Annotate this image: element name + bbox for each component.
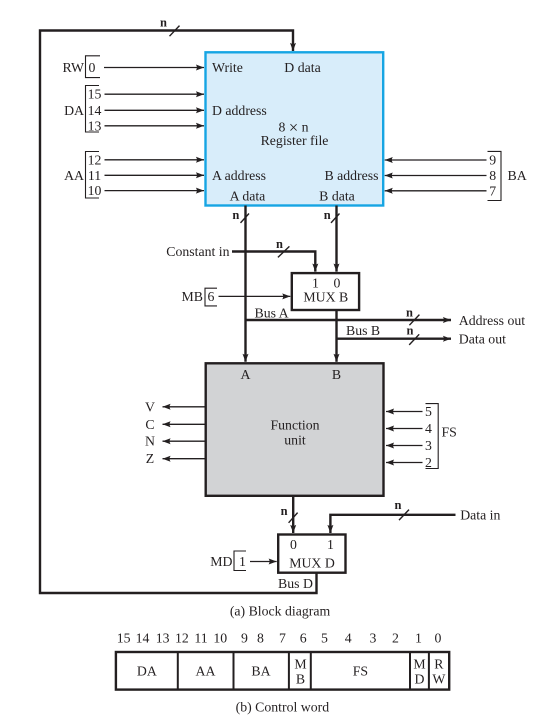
- svg-text:0: 0: [290, 537, 297, 552]
- mux MUX B: [292, 273, 359, 310]
- svg-text:n: n: [232, 208, 239, 222]
- svg-text:6: 6: [208, 289, 215, 304]
- svg-text:9: 9: [241, 631, 248, 646]
- wire BA bit 9: [385, 159, 487, 161]
- svg-text:D address: D address: [212, 103, 267, 118]
- svg-text:14: 14: [88, 103, 102, 118]
- svg-text:BA: BA: [508, 168, 527, 183]
- svg-text:n: n: [276, 237, 283, 251]
- svg-text:A: A: [241, 367, 251, 382]
- svg-text:DA: DA: [137, 663, 157, 678]
- svg-text:1: 1: [327, 537, 334, 552]
- svg-text:(a) Block diagram: (a) Block diagram: [230, 604, 331, 620]
- svg-text:n: n: [406, 305, 413, 319]
- svg-text:9: 9: [489, 153, 496, 168]
- wire AA bit 11: [105, 174, 205, 176]
- svg-text:13: 13: [156, 631, 170, 646]
- field RW: [432, 657, 445, 687]
- BA bits 9-7 control field: [488, 151, 527, 200]
- svg-text:DA: DA: [64, 103, 84, 118]
- svg-text:11: 11: [194, 631, 207, 646]
- svg-text:11: 11: [88, 168, 101, 183]
- wire Bus A to Address out: [246, 305, 526, 328]
- wire status output V: [145, 399, 206, 414]
- svg-text:n: n: [407, 324, 414, 338]
- svg-text:B: B: [332, 367, 341, 382]
- wire MB to MUX B select: [219, 295, 291, 297]
- svg-text:14: 14: [136, 631, 150, 646]
- svg-text:0: 0: [89, 60, 96, 75]
- register file U1 (8 x n): [206, 52, 384, 205]
- svg-text:Bus A: Bus A: [255, 306, 289, 321]
- wire RW to Write: [104, 67, 204, 69]
- svg-text:3: 3: [369, 631, 376, 646]
- svg-text:7: 7: [279, 631, 286, 646]
- svg-text:Write: Write: [212, 60, 243, 75]
- wire MD to MUX D select: [250, 561, 277, 563]
- svg-text:n: n: [160, 16, 167, 30]
- svg-text:Bus B: Bus B: [346, 323, 380, 338]
- svg-text:n: n: [395, 498, 402, 512]
- svg-text:5: 5: [425, 404, 432, 419]
- svg-text:n: n: [281, 504, 288, 518]
- svg-text:W: W: [432, 672, 445, 687]
- svg-text:1: 1: [415, 631, 422, 646]
- svg-text:D data: D data: [284, 60, 320, 75]
- svg-text:12: 12: [88, 152, 102, 167]
- svg-text:C: C: [145, 417, 154, 432]
- svg-text:15: 15: [88, 87, 102, 102]
- wire DA bit 13: [105, 125, 205, 127]
- wire MUX B output to function unit B input: [335, 310, 337, 362]
- svg-text:5: 5: [321, 631, 328, 646]
- svg-text:V: V: [145, 399, 155, 414]
- AA bits 12-10 control field: [64, 152, 101, 199]
- svg-text:0: 0: [334, 275, 341, 290]
- control word bit numbers 15-0: [117, 631, 442, 646]
- wire AA bit 10: [105, 190, 205, 192]
- svg-text:RW: RW: [63, 60, 84, 75]
- svg-text:B address: B address: [324, 168, 378, 183]
- svg-text:R: R: [434, 657, 444, 672]
- wire BA bit 7: [385, 190, 487, 192]
- svg-text:10: 10: [88, 183, 102, 198]
- svg-text:AA: AA: [196, 663, 216, 678]
- svg-text:0: 0: [435, 631, 442, 646]
- wire Data in to MUX D input 1: [330, 498, 500, 533]
- wire Bus D feedback loop (MUX D output to register file D data): [40, 31, 317, 594]
- svg-text:Function: Function: [270, 417, 319, 432]
- svg-text:(b) Control word: (b) Control word: [236, 700, 330, 716]
- svg-text:A address: A address: [212, 168, 266, 183]
- svg-text:12: 12: [175, 631, 189, 646]
- wire FS bit 5: [386, 411, 423, 413]
- wire DA bit 15: [105, 93, 205, 95]
- svg-text:6: 6: [300, 631, 307, 646]
- wire AA bit 12: [105, 159, 205, 161]
- svg-text:Data out: Data out: [459, 332, 506, 347]
- wire B data (register file to MUX B input 0): [324, 206, 340, 272]
- RW bit 0 control field: [63, 56, 100, 78]
- svg-text:MUX D: MUX D: [289, 556, 335, 571]
- wire status output C: [145, 417, 205, 432]
- wire Bus B to Data out: [337, 323, 507, 347]
- wire status output Z: [146, 451, 206, 466]
- svg-text:8: 8: [257, 631, 264, 646]
- svg-text:15: 15: [117, 631, 131, 646]
- wire FS bit 3: [386, 445, 423, 447]
- svg-text:Bus D: Bus D: [278, 576, 313, 591]
- svg-text:1: 1: [312, 275, 319, 290]
- DA bits 15-13 control field: [64, 86, 101, 134]
- wire BA bit 8: [385, 175, 487, 177]
- MD bit 1 control field: [210, 551, 246, 571]
- svg-text:BA: BA: [251, 663, 270, 678]
- svg-text:4: 4: [345, 631, 352, 646]
- wire FS bit 2: [386, 462, 423, 464]
- svg-text:2: 2: [425, 455, 432, 470]
- svg-text:FS: FS: [442, 425, 457, 440]
- svg-text:2: 2: [392, 631, 399, 646]
- field MB: [294, 657, 306, 687]
- svg-text:Z: Z: [146, 451, 154, 466]
- wire FS bit 4: [386, 428, 423, 430]
- svg-text:unit: unit: [284, 432, 306, 447]
- svg-text:D: D: [415, 672, 425, 687]
- node n width slash on top feedback wire: [160, 16, 179, 37]
- svg-text:13: 13: [88, 118, 102, 133]
- svg-text:Register file: Register file: [261, 133, 329, 148]
- svg-text:M: M: [413, 657, 425, 672]
- svg-text:M: M: [294, 657, 306, 672]
- svg-text:Constant in: Constant in: [166, 244, 229, 259]
- svg-text:N: N: [145, 434, 155, 449]
- svg-text:Data in: Data in: [460, 507, 500, 522]
- svg-text:MD: MD: [210, 554, 232, 569]
- svg-text:FS: FS: [353, 663, 368, 678]
- svg-text:AA: AA: [64, 168, 84, 183]
- svg-text:Address out: Address out: [459, 313, 525, 328]
- wire status output N: [145, 434, 206, 449]
- FS bits 5-2 control field: [425, 404, 457, 470]
- svg-text:10: 10: [213, 631, 227, 646]
- svg-text:A data: A data: [230, 189, 266, 204]
- svg-text:MB: MB: [182, 289, 203, 304]
- svg-text:7: 7: [489, 183, 496, 198]
- field MD: [413, 657, 425, 687]
- function unit U2: [206, 363, 384, 496]
- svg-text:MUX B: MUX B: [303, 290, 348, 305]
- svg-text:1: 1: [239, 554, 246, 569]
- mux MUX D: [278, 535, 345, 573]
- wire A data (register file to Bus A and function unit A input): [232, 206, 249, 362]
- svg-text:4: 4: [425, 421, 432, 436]
- svg-text:B: B: [296, 672, 305, 687]
- MB bit 6 control field: [182, 288, 217, 306]
- control word register box: [116, 652, 449, 690]
- wire DA bit 14: [105, 109, 205, 111]
- svg-text:n: n: [324, 208, 331, 222]
- svg-text:B data: B data: [319, 189, 355, 204]
- wire Constant in to MUX B input 1: [166, 237, 315, 272]
- wire function unit output to MUX D input 0: [281, 496, 298, 533]
- svg-text:3: 3: [425, 438, 432, 453]
- svg-text:8: 8: [489, 168, 496, 183]
